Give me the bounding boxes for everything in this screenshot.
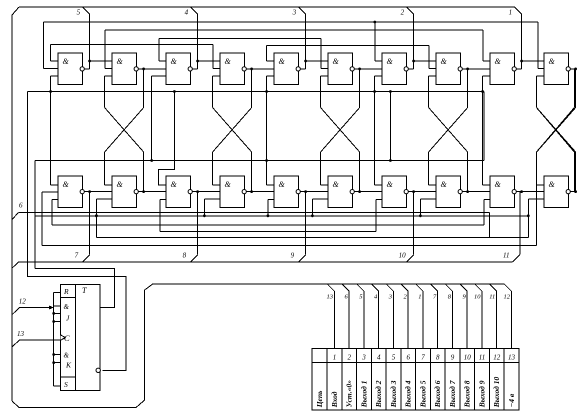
svg-text:11: 11: [489, 294, 495, 301]
svg-text:4: 4: [185, 9, 189, 17]
svg-text:Цепь: Цепь: [315, 390, 324, 408]
svg-text:1: 1: [418, 294, 421, 301]
svg-text:13: 13: [508, 354, 516, 362]
svg-text:8: 8: [183, 252, 187, 260]
svg-text:10: 10: [399, 252, 407, 260]
svg-text:11: 11: [479, 354, 485, 362]
svg-text:11: 11: [503, 252, 509, 260]
svg-text:&: &: [387, 180, 394, 189]
svg-text:Уст.«0»: Уст.«0»: [345, 380, 354, 407]
svg-text:5: 5: [392, 354, 396, 362]
svg-text:&: &: [225, 180, 232, 189]
svg-text:13: 13: [17, 330, 25, 338]
svg-text:3: 3: [361, 354, 366, 362]
svg-text:12: 12: [493, 354, 501, 362]
svg-text:9: 9: [291, 252, 295, 260]
svg-text:12: 12: [503, 294, 510, 301]
svg-text:&: &: [549, 57, 556, 66]
svg-text:7: 7: [75, 252, 79, 260]
svg-text:&: &: [171, 57, 178, 66]
svg-text:&: &: [495, 57, 502, 66]
svg-text:−4 в: −4 в: [507, 393, 516, 407]
svg-text:&: &: [63, 180, 70, 189]
svg-text:Выход 9: Выход 9: [477, 380, 486, 408]
svg-text:5: 5: [77, 9, 81, 17]
svg-text:&: &: [63, 57, 70, 66]
svg-text:T: T: [82, 286, 87, 295]
svg-text:6: 6: [406, 354, 410, 362]
svg-text:&: &: [441, 180, 448, 189]
svg-text:9: 9: [451, 354, 455, 362]
svg-text:&: &: [117, 180, 124, 189]
svg-text:2: 2: [401, 9, 405, 17]
svg-text:Выход 3: Выход 3: [389, 380, 398, 408]
svg-text:&: &: [333, 180, 340, 189]
svg-text:Выход 7: Выход 7: [448, 380, 457, 408]
svg-text:R: R: [63, 287, 69, 296]
svg-text:Выход 4: Выход 4: [404, 380, 413, 408]
svg-text:Выход 8: Выход 8: [463, 380, 472, 408]
svg-text:&: &: [441, 57, 448, 66]
svg-text:10: 10: [474, 294, 481, 301]
svg-text:10: 10: [464, 354, 472, 362]
svg-text:1: 1: [333, 354, 337, 362]
svg-text:12: 12: [19, 298, 27, 306]
svg-text:Выход 5: Выход 5: [418, 380, 427, 408]
svg-text:Выход 10: Выход 10: [492, 377, 501, 409]
svg-text:K: K: [65, 361, 72, 370]
svg-text:1: 1: [509, 9, 512, 17]
svg-text:&: &: [333, 57, 340, 66]
svg-text:&: &: [117, 57, 124, 66]
svg-text:&: &: [279, 180, 286, 189]
svg-text:2: 2: [347, 354, 351, 362]
svg-text:&: &: [387, 57, 394, 66]
svg-text:4: 4: [377, 354, 381, 362]
svg-text:Выход 1: Выход 1: [359, 381, 368, 409]
svg-text:Выход 2: Выход 2: [374, 380, 383, 408]
svg-text:6: 6: [19, 202, 23, 210]
svg-text:3: 3: [388, 294, 393, 301]
svg-text:&: &: [64, 303, 70, 311]
svg-text:7: 7: [421, 354, 425, 362]
svg-text:&: &: [225, 57, 232, 66]
svg-text:&: &: [279, 57, 286, 66]
svg-text:&: &: [171, 180, 178, 189]
svg-text:13: 13: [326, 294, 333, 301]
svg-text:Выход 6: Выход 6: [433, 380, 442, 408]
svg-text:3: 3: [292, 9, 297, 17]
svg-text:&: &: [495, 180, 502, 189]
svg-text:Вход: Вход: [330, 391, 339, 408]
svg-text:8: 8: [436, 354, 440, 362]
svg-text:&: &: [549, 180, 556, 189]
svg-text:&: &: [64, 352, 70, 360]
svg-text:S: S: [64, 380, 68, 389]
